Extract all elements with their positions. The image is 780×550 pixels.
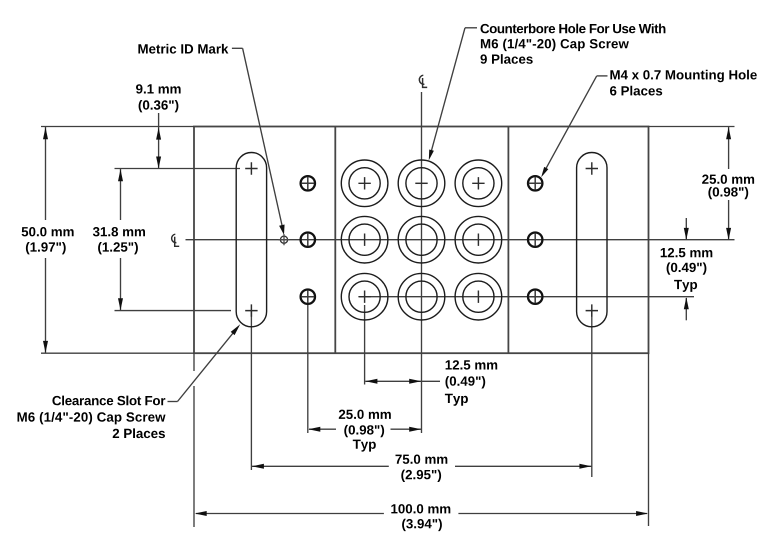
- dim 25.0mm bottom line: [309, 428, 336, 430]
- dim 50.0mm text: [22, 227, 74, 236]
- label M4 Mounting Hole: [610, 70, 756, 82]
- dim 100.0mm line: [196, 513, 384, 515]
- plate outline: [194, 127, 649, 354]
- row-3 extension line: [359, 296, 694, 298]
- dim 100.0mm text: [391, 504, 450, 513]
- dim 9.1mm vertical line: [158, 113, 160, 169]
- dim 9.1mm text: [136, 84, 181, 93]
- M4 mounting holes 6 places: [301, 176, 543, 304]
- right clearance slot: [577, 153, 607, 327]
- dim 12.5mm bottom text: [446, 360, 498, 369]
- horizontal centerline: [186, 239, 735, 241]
- left slot bottom cross: [245, 304, 257, 316]
- plate left edge extension below (two segments, gap at leader): [193, 353, 195, 371]
- dim 25.0mm right text: [702, 175, 754, 184]
- counterbore hole grid 9 places: [341, 160, 501, 320]
- dim 75.0mm line: [252, 465, 389, 467]
- label Metric ID Mark: [138, 44, 228, 54]
- dim 12.5mm right text: [661, 248, 713, 257]
- right slot center extension line below plate: [591, 311, 593, 477]
- centerline symbol top: [419, 75, 427, 87]
- left M4 column extension line below plate: [307, 305, 309, 433]
- dim 12.5mm bottom line: [365, 380, 440, 382]
- slot-bottom extension line (31.8 bottom): [115, 310, 232, 312]
- centerline symbol left: [172, 234, 180, 246]
- dim 50.0mm vertical line: [45, 127, 47, 220]
- dim 25.0mm right vertical line: [728, 127, 730, 169]
- label Counterbore Hole: [481, 24, 666, 34]
- left slot top cross: [245, 162, 257, 174]
- slot-top extension line (31.8 top): [115, 168, 241, 170]
- left slot center extension line below plate: [250, 311, 252, 470]
- right slot top cross: [586, 162, 598, 174]
- vertical centerline through middle column: [421, 92, 423, 433]
- dim 31.8mm text: [93, 227, 145, 236]
- left clearance slot: [236, 153, 266, 327]
- dim 12.5mm right arrows: [685, 218, 687, 240]
- top edge extension line left: [41, 126, 194, 128]
- right slot bottom cross: [586, 304, 598, 316]
- top edge extension line right: [649, 126, 735, 128]
- interior panel line right: [507, 127, 509, 354]
- dim 75.0mm text: [396, 455, 448, 464]
- interior panel line left: [334, 127, 336, 354]
- metric ID mark: [280, 236, 287, 243]
- label Clearance Slot: [52, 396, 165, 406]
- dim 25.0mm bottom text: [339, 410, 391, 419]
- dim 31.8mm vertical line: [120, 169, 122, 220]
- column-1 extension line below plate: [364, 305, 366, 385]
- plate right edge extension below: [648, 353, 650, 526]
- bottom edge extension line left: [41, 352, 194, 354]
